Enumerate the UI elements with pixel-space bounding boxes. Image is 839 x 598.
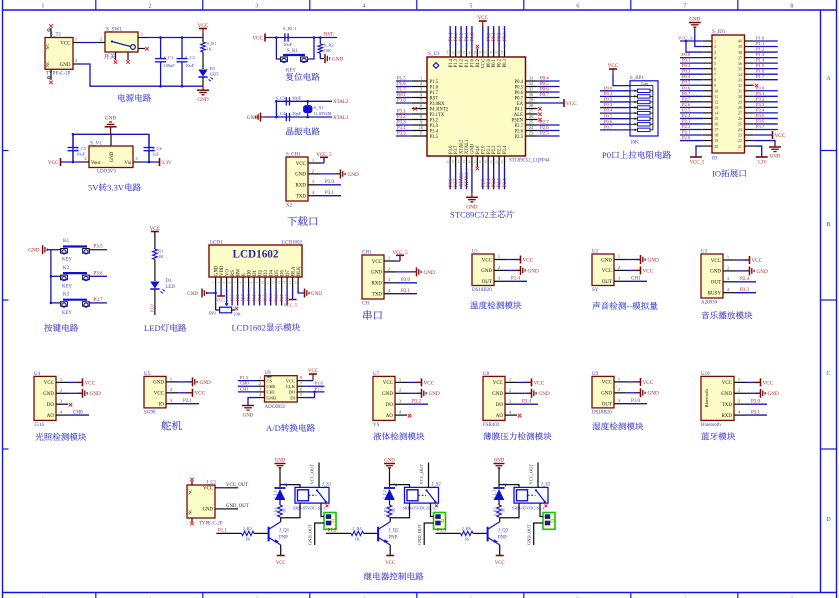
caption P0口上拉电阻电路 <box>602 150 671 160</box>
wire crystal left drop <box>275 100 278 118</box>
connector JD1 pins 7/34 <box>703 72 754 77</box>
wire chip left P3.2 <box>396 119 412 121</box>
svg-text:3: 3 <box>222 281 226 283</box>
regulator S_V1 LDO3V3 <box>82 134 140 174</box>
net label P0.6 (chip right) <box>540 87 549 92</box>
svg-text:1K: 1K <box>207 47 213 52</box>
svg-text:P0.1: P0.1 <box>492 58 497 67</box>
power 3.3V <box>160 158 172 166</box>
lcd pin 8 D1 <box>250 270 258 287</box>
svg-text:P2.1: P2.1 <box>487 145 492 154</box>
svg-text:VCC_5: VCC_5 <box>284 303 298 308</box>
wire switch to VCC rail <box>145 37 203 39</box>
svg-text:U2: U2 <box>592 250 599 255</box>
svg-text:P0.0: P0.0 <box>246 294 251 301</box>
chip bottom pin 20 P2.2 <box>489 145 497 167</box>
net label P1.2 (chip top) <box>460 32 465 41</box>
svg-text:J_S1: J_S1 <box>322 483 332 488</box>
wire chip EA to VCC <box>538 102 564 104</box>
net label P3.6 (JD1 right) <box>756 118 765 123</box>
power VCC (adc) <box>308 369 319 381</box>
net label P0.7 (JD1) <box>682 91 691 96</box>
svg-text:PNP: PNP <box>279 536 288 541</box>
connector JD1 pins 12/29 <box>703 100 754 105</box>
svg-text:8: 8 <box>790 4 793 10</box>
net label lcd D2 <box>257 294 262 301</box>
svg-text:11: 11 <box>266 281 270 285</box>
net at pin 2 of U5 <box>193 389 206 397</box>
svg-text:GND: GND <box>768 391 779 397</box>
svg-text:P1.1: P1.1 <box>756 41 765 46</box>
svg-text:CH0: CH0 <box>240 381 249 386</box>
chip top pin 36 P0.1 <box>489 48 497 67</box>
wire reset rail <box>265 37 337 39</box>
svg-text:10: 10 <box>419 125 423 130</box>
svg-text:GND: GND <box>539 391 550 397</box>
svg-text:AO: AO <box>496 414 504 419</box>
net at pin 4 of U3 <box>740 288 750 293</box>
wire diode to R (relay 2) <box>389 500 391 506</box>
wire base lead (relay 1) <box>216 532 241 534</box>
svg-text:D1: D1 <box>253 270 258 276</box>
svg-text:P0.4: P0.4 <box>268 294 273 301</box>
wire JD1 left pin 9 <box>680 84 703 86</box>
svg-text:2: 2 <box>170 387 172 392</box>
svg-text:VCC: VCC <box>775 133 786 139</box>
svg-text:SRD-05VDC-SL-C: SRD-05VDC-SL-C <box>293 506 327 511</box>
wire relay coil to VCC_OUT (relay 2) <box>419 463 429 488</box>
wire JD1 right pin 24 <box>754 128 778 130</box>
svg-text:P3.4: P3.4 <box>756 107 765 112</box>
svg-text:RXD: RXD <box>721 414 732 419</box>
svg-text:P3.0: P3.0 <box>401 278 411 283</box>
pin 4 of U10 <box>721 410 767 419</box>
wire VCC to R1 <box>154 232 156 250</box>
svg-text:VCC: VCC <box>203 487 213 492</box>
net label XTAL2 (chip bottom) <box>460 172 465 187</box>
svg-text:P1.5: P1.5 <box>240 375 249 380</box>
pin 2 of U5 <box>154 387 192 396</box>
wire chip top P1.4 <box>449 26 451 48</box>
capacitor S_C4 30pF <box>276 111 302 121</box>
svg-text:Via: Via <box>124 161 132 166</box>
svg-text:VCC: VCC <box>481 59 486 69</box>
svg-text:RS: RS <box>231 270 236 276</box>
adc U6 ADC0832 body <box>257 371 306 410</box>
lcd pin 13 D6 <box>277 270 285 287</box>
svg-text:P1.0: P1.0 <box>471 58 476 67</box>
svg-text:A: A <box>826 76 831 82</box>
net at pin 1 of S_CH1 <box>316 153 332 163</box>
svg-text:7: 7 <box>683 4 686 10</box>
wire keys ground rail <box>47 250 51 303</box>
svg-text:PNP: PNP <box>498 536 507 541</box>
pin 2 of U2 <box>602 265 640 274</box>
net label P0.2 (chip top) <box>498 32 503 41</box>
diode J_L2 <box>382 484 396 500</box>
svg-text:16: 16 <box>294 281 298 285</box>
svg-text:P0.7: P0.7 <box>682 91 691 96</box>
svg-text:IO: IO <box>712 169 721 179</box>
net label lcd D5 <box>274 294 279 301</box>
wire terminal to GND_OUT (relay 1) <box>308 523 325 545</box>
net label P0.4 (RP1) <box>604 108 613 113</box>
pin 4 of U8 <box>496 410 517 419</box>
wire lcd RS <box>231 287 233 306</box>
wire lcd GND pin <box>215 287 217 310</box>
net label CH1 (adc) <box>240 386 249 391</box>
pin 1 of U9 <box>602 376 640 385</box>
svg-text:P0.0: P0.0 <box>682 52 691 57</box>
svg-text:P3.3: P3.3 <box>756 102 765 107</box>
svg-text:8: 8 <box>300 375 302 380</box>
lcd pin 1 GND <box>211 265 219 287</box>
svg-text:VCC: VCC <box>385 561 395 566</box>
svg-text:GND: GND <box>60 63 71 68</box>
net label RST <box>324 33 333 38</box>
svg-text:VCC: VCC <box>566 101 577 107</box>
net label P1.1 (JD1 right) <box>756 41 765 46</box>
net label P0.3 (chip top) <box>503 32 508 41</box>
ic U8 <box>483 372 505 428</box>
wire emitter to VCC (relay 3) <box>499 545 501 556</box>
svg-text:XTAL1: XTAL1 <box>465 172 470 187</box>
wire GND to JD1 pin2 <box>695 30 703 47</box>
svg-text:LCD1602: LCD1602 <box>282 241 303 246</box>
net label P1.1 (chip top) <box>465 32 470 41</box>
net label P2.6 (JD1) <box>682 102 691 107</box>
wire collector (relay 2) <box>389 518 391 522</box>
svg-text:GND: GND <box>247 115 258 121</box>
svg-text:21: 21 <box>738 144 742 149</box>
net label P2.1 (JD1) <box>682 130 691 135</box>
caption 声音检测--模拟量 <box>592 301 657 311</box>
svg-text:RST: RST <box>324 33 333 38</box>
chip right pin 26 PSEN <box>512 114 538 123</box>
svg-text:P3.7: P3.7 <box>454 145 459 154</box>
net at pin 1 of U4 <box>83 378 96 386</box>
net at pin 3 of S_CH1 <box>325 180 335 185</box>
svg-text:VCC_OUT: VCC_OUT <box>226 483 248 488</box>
svg-text:P0.5: P0.5 <box>274 294 279 301</box>
pin 2 of CH1 <box>371 266 416 275</box>
svg-text:2: 2 <box>618 387 620 392</box>
wire lcd D6 <box>281 287 283 306</box>
wire lcd BLA <box>292 287 294 300</box>
connector JD1 pins 18/23 <box>703 133 754 138</box>
net label P1.3 (relay 3) <box>437 529 447 534</box>
svg-text:U5: U5 <box>144 372 151 377</box>
wire JD1 right pin 40 <box>754 40 778 42</box>
net at pin 1 of U2 <box>641 255 659 264</box>
wire diode to coil jog (relay 3) <box>499 485 519 488</box>
svg-text:P0.1: P0.1 <box>682 58 691 63</box>
svg-text:C: C <box>826 371 830 377</box>
net label P2.2 (chip bottom) <box>492 178 497 187</box>
power VCC (relay 2) <box>385 556 395 567</box>
wire T1 VCC to switch <box>80 42 98 44</box>
svg-text:--: -- <box>626 301 632 311</box>
power GND (chip) <box>466 193 478 210</box>
svg-text:P2.6: P2.6 <box>235 294 240 301</box>
svg-text:P3.1: P3.1 <box>751 411 761 416</box>
wire lcd D7 <box>286 287 288 306</box>
chip right pin 23 P2.5 <box>515 131 538 140</box>
svg-text:GND: GND <box>492 392 503 397</box>
svg-text:GND: GND <box>243 414 254 419</box>
net at pin 3 of U1 <box>511 277 521 282</box>
power GND (crystal) <box>247 113 264 122</box>
wire R2 to ground <box>320 53 324 58</box>
net label CH0 (adc) <box>240 381 249 386</box>
chip left pin 8 P3.2 <box>412 114 439 123</box>
wire chip bottom P2.1 <box>487 167 489 189</box>
svg-text:VCC: VCC <box>711 259 722 264</box>
svg-text:GND: GND <box>481 269 492 274</box>
svg-text:P1.2: P1.2 <box>756 47 765 52</box>
net label P1.4 (chip top) <box>449 32 454 41</box>
svg-text:U1: U1 <box>472 250 479 255</box>
svg-text:P1.1: P1.1 <box>218 529 228 534</box>
svg-text:U8: U8 <box>483 372 490 377</box>
wire JD1 left pin 4 <box>680 57 703 59</box>
net at pin 1 of U5 <box>193 377 211 386</box>
chip left pin 6 P4.3INT2 <box>412 103 449 112</box>
wire JD1 right pin 33 <box>754 79 778 81</box>
wire VCC to RP1 common <box>613 74 630 86</box>
svg-text:7: 7 <box>714 72 716 77</box>
svg-text:1: 1 <box>170 376 172 381</box>
svg-text:GND: GND <box>153 381 164 386</box>
svg-text:P2.5: P2.5 <box>230 294 235 301</box>
wire lcd D0 <box>248 287 250 306</box>
svg-text:1: 1 <box>60 377 62 382</box>
LED D1 <box>150 279 175 293</box>
svg-text:10uF: 10uF <box>185 63 195 68</box>
svg-text:P0.3: P0.3 <box>682 69 691 74</box>
net label P0.0 (RP1) <box>604 85 613 90</box>
net label RST (chip left) <box>397 93 406 98</box>
pin 4 of U4 <box>47 410 89 419</box>
net label XTAL1 (chip bottom) <box>465 172 470 187</box>
power VCC (relay 3) <box>495 556 505 567</box>
net label P2.3 (chip bottom) <box>498 178 503 187</box>
svg-text:GND: GND <box>110 151 115 162</box>
wire lcd RW <box>237 287 239 306</box>
svg-text:1: 1 <box>211 281 215 283</box>
svg-text:NC: NC <box>188 489 193 495</box>
svg-text:R1: R1 <box>158 249 164 254</box>
svg-text:VCC: VCC <box>372 260 383 265</box>
wire JD1 right pin 27 <box>754 112 778 114</box>
net label P3.7 (JD1 right) <box>756 124 765 129</box>
net label lcd D6 <box>279 294 284 301</box>
chip left pin 1 P1.5 <box>412 76 439 85</box>
svg-text:NC: NC <box>45 61 50 67</box>
resistor RP1 element 5 <box>630 111 653 114</box>
net label P0.4 (JD1) <box>682 74 691 79</box>
no-erc cross chip pin 27 <box>538 113 542 117</box>
wire JD1 right pin 37 <box>754 57 778 59</box>
svg-text:1K: 1K <box>391 508 396 513</box>
connector JD1 pins 17/24 <box>703 127 754 132</box>
power GND (relay 2) <box>384 459 395 468</box>
svg-text:P2.6: P2.6 <box>515 129 524 134</box>
svg-text:P2.0: P2.0 <box>481 145 486 154</box>
svg-text:VCC: VCC <box>276 561 286 566</box>
net at pin 1 of U8 <box>532 378 545 386</box>
wire JD1 right pin 25 <box>754 123 778 125</box>
net at pin 3 of U7 <box>412 400 422 405</box>
svg-text:VCC: VCC <box>602 381 613 386</box>
svg-text:KEY: KEY <box>62 311 72 316</box>
chip right pin 27 ALE <box>514 109 538 118</box>
wire chip bottom P3.6 <box>449 167 451 189</box>
svg-text:P0.7: P0.7 <box>285 294 290 301</box>
net at pin 2 of CH1 <box>417 267 435 276</box>
pin 4 of S_CH1 <box>296 190 341 199</box>
svg-text:LCD1602: LCD1602 <box>232 323 266 333</box>
wire JD1 right pin 36 <box>754 62 778 64</box>
svg-text:P2.7: P2.7 <box>682 96 691 101</box>
svg-text:23: 23 <box>529 131 533 136</box>
svg-text:2: 2 <box>388 266 390 271</box>
svg-text:P2.3: P2.3 <box>498 145 503 154</box>
lcd pin 9 D2 <box>255 270 263 287</box>
svg-text:2: 2 <box>618 265 620 270</box>
svg-text:DO: DO <box>496 403 504 408</box>
svg-text:P0.2: P0.2 <box>682 63 691 68</box>
svg-text:P1.4: P1.4 <box>756 58 765 63</box>
svg-text:J_R6: J_R6 <box>462 526 472 531</box>
svg-text:LED: LED <box>210 72 220 77</box>
wire JD1 right pin 29 <box>754 101 778 103</box>
svg-text:VCC: VCC <box>383 381 394 386</box>
wire JD1 right pin 39 <box>754 46 778 48</box>
wire chip right P0.4 <box>538 80 560 82</box>
svg-text:GND: GND <box>757 269 768 275</box>
svg-text:20: 20 <box>714 144 718 149</box>
svg-text:3.3V: 3.3V <box>107 183 125 193</box>
wire diode to R (relay 1) <box>279 500 281 506</box>
pin 3 of U1 <box>482 276 527 285</box>
net at pin 3 of U10 <box>751 400 761 405</box>
net label P1.2 (JD1 right) <box>756 47 765 52</box>
wire LDO top rail <box>73 134 149 162</box>
caption 复位电路 <box>286 73 320 81</box>
chip top pin 41 P1.1 <box>462 48 470 67</box>
net label P1.7 (JD1 right) <box>756 74 765 79</box>
svg-text:P2.7: P2.7 <box>241 294 246 301</box>
svg-text:1: 1 <box>312 157 314 162</box>
svg-text:VCC_OUT: VCC_OUT <box>419 464 424 485</box>
svg-text:CH0: CH0 <box>73 411 83 416</box>
power VCC (power module) <box>198 23 209 34</box>
svg-text:J_S3: J_S3 <box>541 483 551 488</box>
svg-text:J_Q1: J_Q1 <box>279 529 290 534</box>
wire crystal bottom <box>264 116 332 118</box>
lcd pin 12 D5 <box>272 270 280 287</box>
net label P1.1 (relay 1) <box>218 529 228 534</box>
svg-text:P0.1: P0.1 <box>492 32 497 41</box>
wire JD1 left pin 18 <box>680 134 703 136</box>
connector JD1 pins 5/36 <box>703 61 754 66</box>
wire P0.7 to RP1 <box>600 129 630 131</box>
svg-text:S_T1: S_T1 <box>50 32 62 38</box>
chip right pin 28 P4.1 <box>515 103 538 112</box>
switch S_SW1 <box>98 27 149 64</box>
resistor J_R6 1K (relay 3) <box>461 526 474 542</box>
net label P0.3 (JD1) <box>682 69 691 74</box>
resistor RP1 element 8 <box>630 128 653 131</box>
svg-text:S_C2: S_C2 <box>185 55 195 60</box>
svg-text:6: 6 <box>420 103 422 108</box>
wire chip left P1.6 <box>396 86 412 88</box>
net at pin 3 of U4 <box>69 403 73 407</box>
caption 按键电路 <box>44 324 78 332</box>
relay J_S3 body <box>512 483 551 511</box>
svg-text:P2.7: P2.7 <box>540 120 549 125</box>
svg-text:5V: 5V <box>88 183 99 193</box>
net label lcd D3 <box>263 294 268 301</box>
pin 1 of U3 <box>711 254 749 263</box>
connector JD1 pins 3/38 <box>703 50 754 55</box>
net label P0.5 (chip right) <box>540 82 549 87</box>
net label P2.0 (LED) <box>150 304 155 312</box>
wire terminal to GND_OUT (relay 2) <box>417 523 434 545</box>
connector JD1 pins 20/21 <box>703 144 754 149</box>
net at pin 1 of CH1 <box>392 251 408 261</box>
wire chip left RST <box>396 97 412 99</box>
power VCC (chip EA) <box>564 99 577 107</box>
wire chip bottom P2.2 <box>493 167 495 189</box>
wire emitter to VCC (relay 1) <box>280 545 282 556</box>
svg-text:VCC: VCC <box>286 378 295 383</box>
svg-text:RXD: RXD <box>371 282 382 287</box>
no-erc cross relay 1 NC pin <box>326 504 329 507</box>
transistor J_Q2 PNP <box>376 522 399 545</box>
svg-text:2: 2 <box>60 388 62 393</box>
svg-text:P1.5: P1.5 <box>756 63 765 68</box>
svg-text:TXD: TXD <box>296 195 307 200</box>
svg-text:S_U1: S_U1 <box>428 51 440 57</box>
net at pin 2 of U2 <box>641 266 654 274</box>
net at pin 3 of U9 <box>631 399 641 404</box>
power GND (adc) <box>242 406 254 419</box>
no-erc cross chip pin 39 <box>476 45 480 49</box>
wire coil bottom (relay 3) <box>499 503 519 518</box>
svg-text:GND: GND <box>648 391 659 397</box>
net label P3.7 (keys) <box>94 298 104 303</box>
svg-text:P1.0: P1.0 <box>631 399 641 404</box>
svg-text:DI: DI <box>290 395 295 400</box>
svg-text:P1.6: P1.6 <box>430 85 439 90</box>
pin 1 of S_CH1 <box>296 157 324 166</box>
chip top pin 44 P1.4 <box>446 48 454 67</box>
svg-text:5: 5 <box>469 4 472 10</box>
net label P2.7 (chip right) <box>540 120 549 125</box>
svg-text:5: 5 <box>233 281 237 283</box>
wire JD1 right pin 28 <box>754 106 778 108</box>
svg-text:P2.6: P2.6 <box>540 126 549 131</box>
power VCC (reset) <box>252 34 265 42</box>
svg-text:P0.0: P0.0 <box>604 85 613 90</box>
svg-text:XTAL1: XTAL1 <box>333 116 349 121</box>
wire chip right P2.6 <box>538 130 560 132</box>
svg-text:10: 10 <box>261 281 265 285</box>
caption 薄膜压力检测模块 <box>483 432 551 440</box>
svg-text:GND: GND <box>311 292 322 297</box>
